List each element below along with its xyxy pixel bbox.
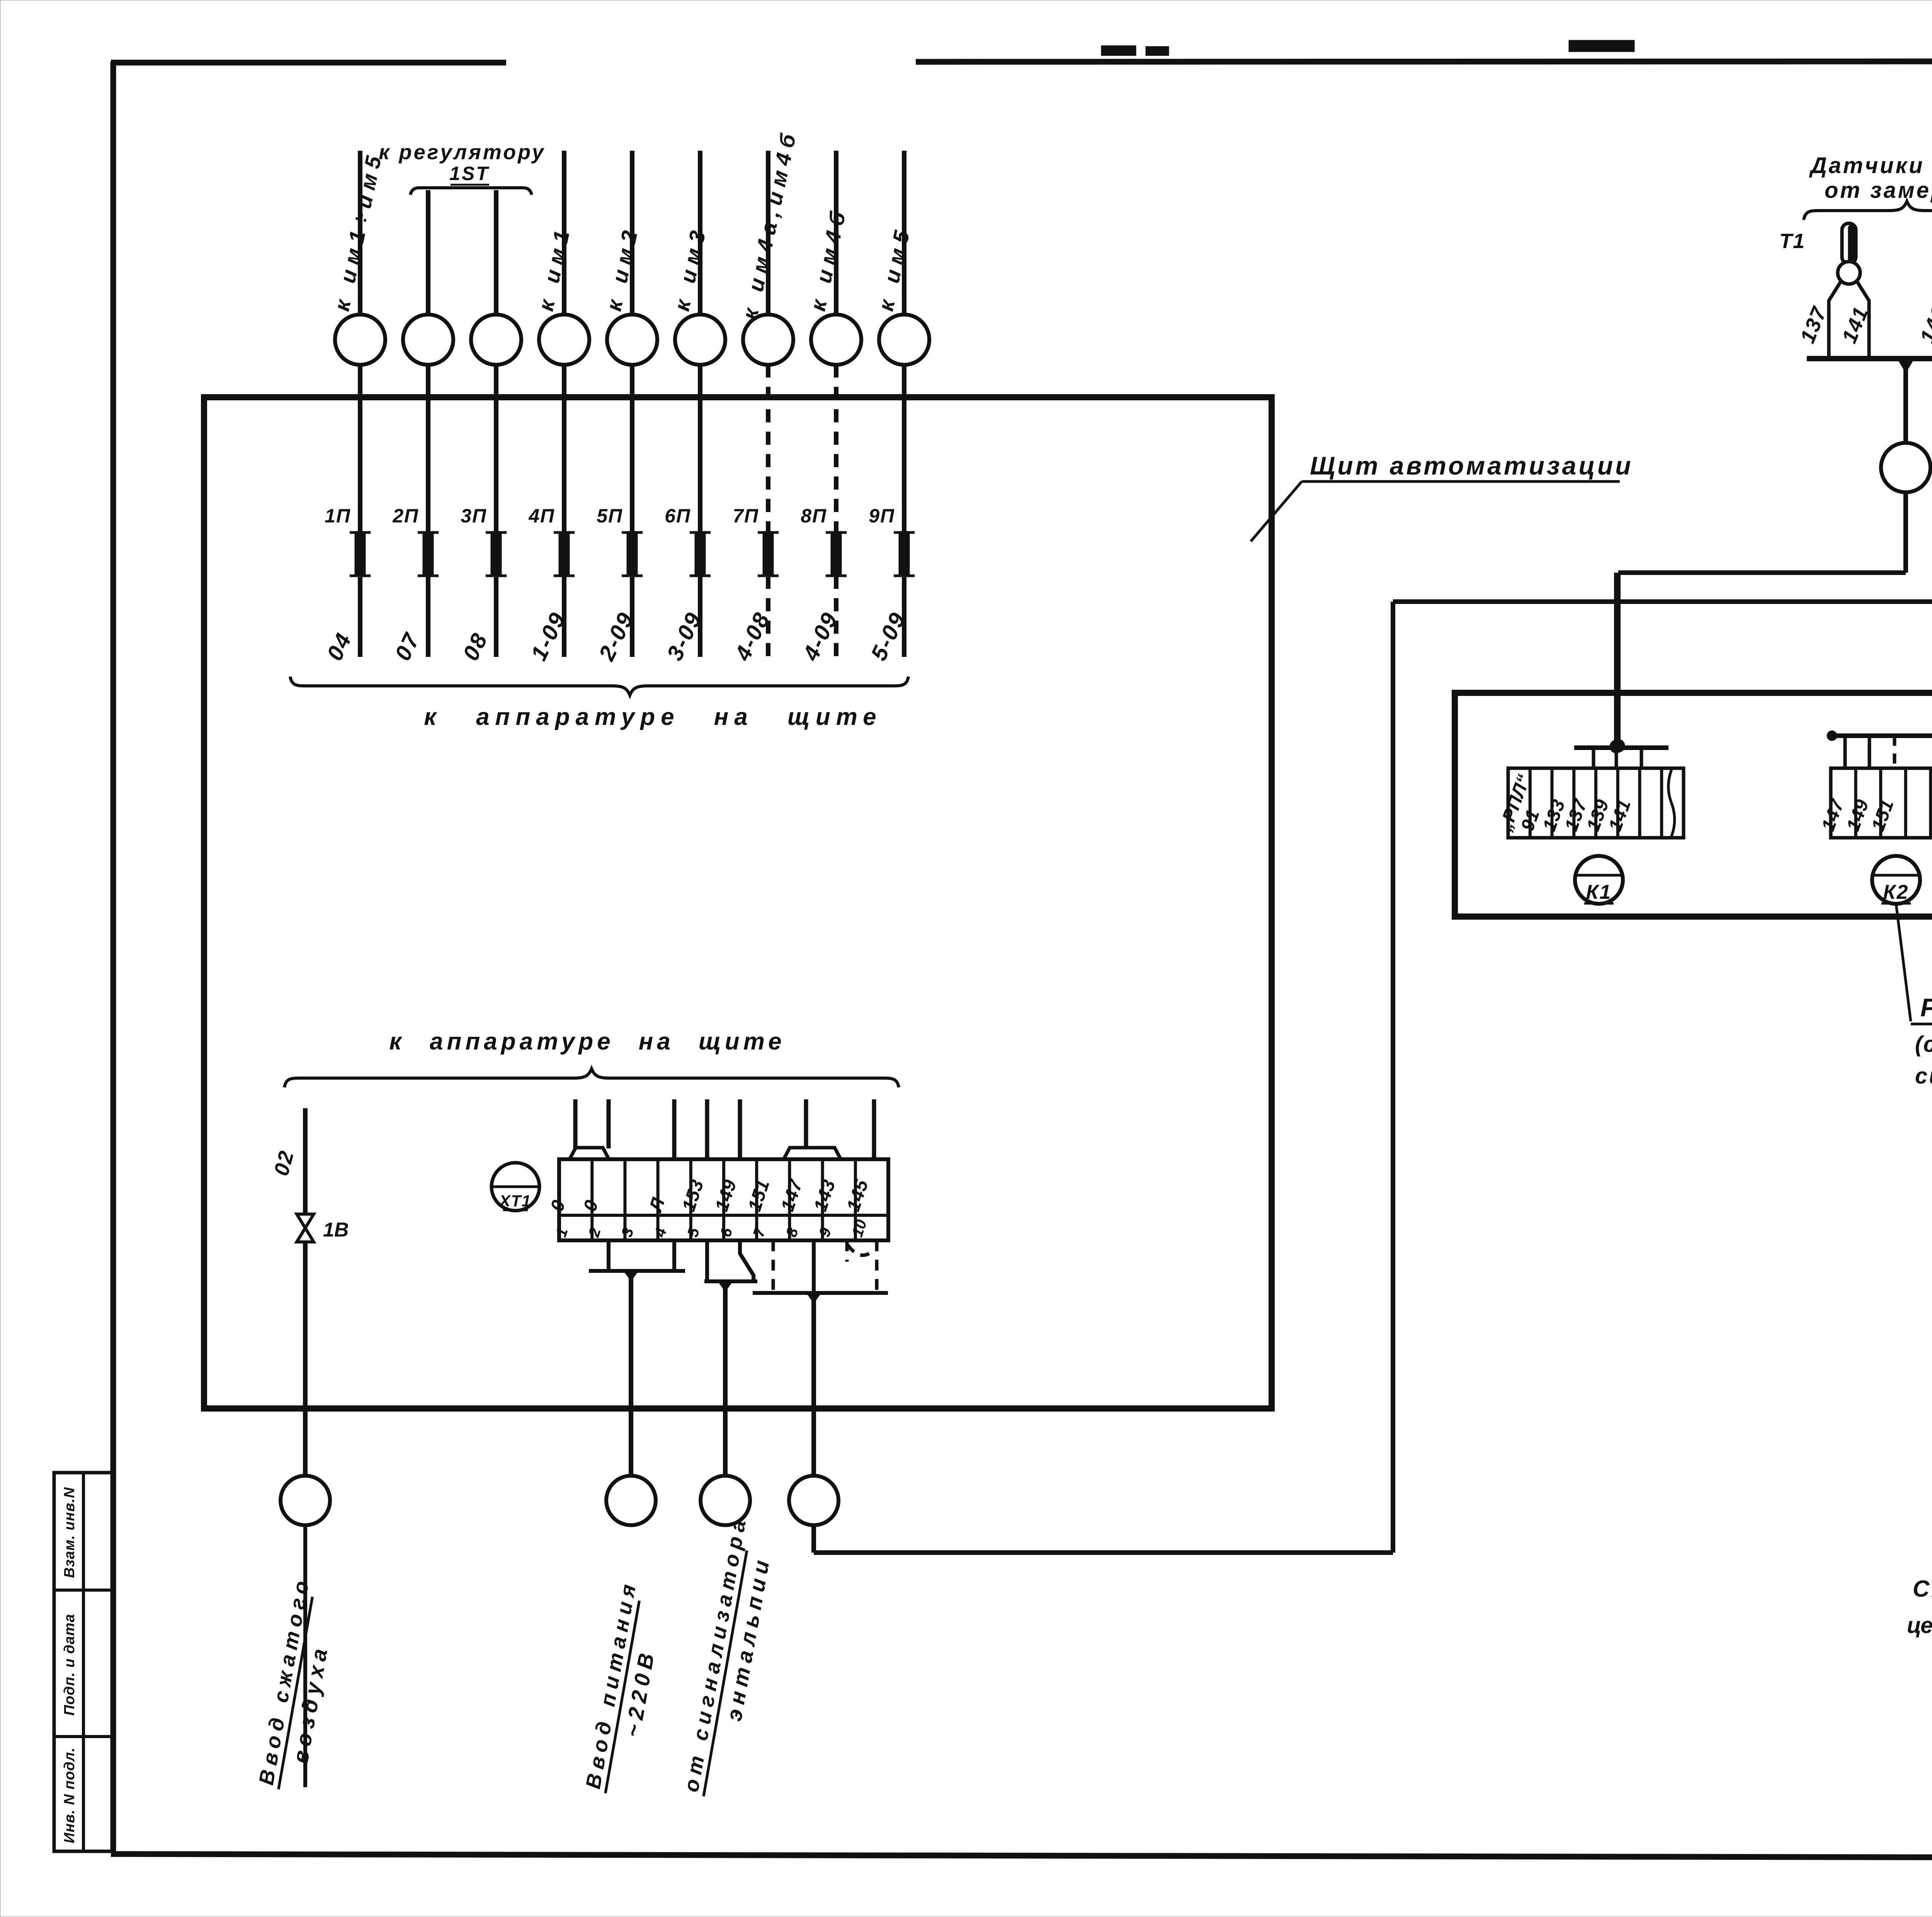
svg-text:8П: 8П [801, 505, 827, 527]
svg-text:1П: 1П [325, 505, 351, 527]
svg-text:К2: К2 [1883, 881, 1909, 903]
svg-text:6П: 6П [665, 505, 691, 527]
svg-text:1SТ: 1SТ [449, 163, 490, 184]
svg-text:(см. раздел „ Управление и: (см. раздел „ Управление и [1915, 1032, 1932, 1057]
svg-text:Щит автоматизации: Щит автоматизации [1310, 451, 1633, 480]
svg-text:от замерзания: от замерзания [1825, 178, 1932, 203]
svg-text:1В: 1В [323, 1219, 349, 1241]
svg-text:ХТ1: ХТ1 [498, 1192, 531, 1210]
svg-text:Подп. и дата: Подп. и дата [61, 1614, 78, 1716]
svg-text:5П: 5П [597, 505, 623, 527]
svg-text:к аппаратуре на щите: к аппаратуре на щите [389, 1028, 785, 1055]
svg-text:Схема подключения щита авто: Схема подключения щита автоматизации [1913, 1576, 1932, 1602]
svg-text:Инв. N подл.: Инв. N подл. [61, 1747, 78, 1843]
svg-text:Релейный щит: Релейный щит [1920, 993, 1932, 1022]
svg-text:силовое электрооборудование“): силовое электрооборудование“) [1915, 1063, 1932, 1089]
svg-text:к аппаратуре на щите: к аппаратуре на щите [424, 704, 882, 730]
svg-text:Датчики защиты: Датчики защиты [1809, 153, 1932, 178]
svg-text:К1: К1 [1586, 881, 1612, 903]
svg-text:к регулятору: к регулятору [379, 141, 546, 164]
svg-text:4П: 4П [528, 505, 555, 527]
svg-text:2П: 2П [392, 505, 419, 527]
svg-text:7П: 7П [733, 505, 759, 527]
svg-text:Т1: Т1 [1779, 230, 1805, 253]
svg-text:3П: 3П [461, 505, 487, 527]
svg-text:Взам. инв.N: Взам. инв.N [61, 1487, 78, 1578]
svg-text:9П: 9П [869, 505, 895, 527]
svg-text:центральной части унифицирован: центральной части унифицированного однок… [1907, 1613, 1932, 1638]
